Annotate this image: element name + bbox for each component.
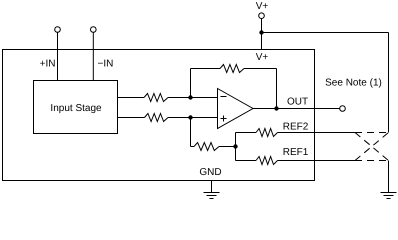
svg-text:−IN: −IN [98, 59, 114, 70]
svg-text:OUT: OUT [287, 97, 308, 108]
svg-text:V+: V+ [256, 1, 269, 12]
svg-text:GND: GND [199, 167, 221, 178]
svg-text:Input Stage: Input Stage [50, 103, 102, 114]
svg-text:REF1: REF1 [283, 147, 309, 158]
svg-text:V+: V+ [256, 52, 269, 63]
svg-text:REF2: REF2 [283, 122, 309, 133]
svg-text:See Note (1): See Note (1) [325, 78, 382, 89]
svg-text:+IN: +IN [40, 59, 56, 70]
